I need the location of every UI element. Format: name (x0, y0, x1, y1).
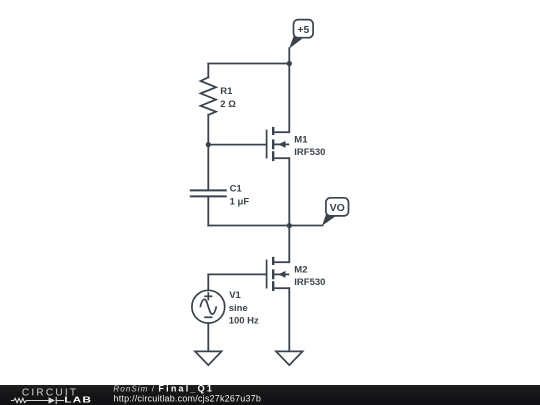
voltage source V1 (sine) (192, 290, 225, 323)
transistor M1 (NMOS IRF530) (267, 127, 290, 161)
svg-text:+5: +5 (297, 24, 309, 36)
footer bar (0, 385, 540, 405)
wire M2 gate lead (208, 273, 266, 275)
wire VO stub (289, 225, 322, 227)
svg-text:C1: C1 (230, 184, 243, 195)
svg-text:http://circuitlab.com/cjs27k26: http://circuitlab.com/cjs27k267u37b (114, 394, 262, 404)
logo diode symbol (49, 397, 56, 404)
capacitor C1 (191, 190, 226, 196)
svg-text:M2: M2 (294, 264, 307, 275)
wire R1 top lead (207, 64, 209, 78)
wire bottom horizontal to VO node (208, 225, 289, 227)
svg-text:LAB: LAB (64, 396, 92, 405)
svg-text:IRF530: IRF530 (294, 277, 325, 288)
svg-text:M1: M1 (294, 134, 308, 145)
junction dot at R1 / C1 / M1 gate node (206, 142, 211, 147)
svg-text:1 μF: 1 μF (230, 197, 250, 208)
wire C1 bottom lead (207, 196, 209, 225)
svg-text:2 Ω: 2 Ω (220, 99, 236, 110)
svg-text:sine: sine (229, 303, 248, 314)
svg-text:IRF530: IRF530 (294, 147, 325, 158)
node +5 flag (289, 20, 313, 49)
svg-text:RonSim / Final_Q1: RonSim / Final_Q1 (113, 383, 214, 393)
wire V1 top lead (207, 274, 209, 290)
wire top horizontal (node +5 rail to R1 branch) (208, 63, 289, 65)
node VO flag (322, 198, 349, 226)
svg-text:V1: V1 (229, 290, 241, 301)
wire from +5 flag down to top node (288, 48, 290, 63)
transistor M2 (NMOS IRF530) (267, 257, 290, 291)
wire M1 gate lead (208, 144, 266, 146)
resistor R1 (201, 77, 216, 115)
svg-text:R1: R1 (220, 86, 233, 97)
wire V1 bottom lead (207, 323, 209, 351)
wire right rail M1 source to M2 drain (288, 158, 290, 262)
junction dot at VO node (287, 223, 292, 228)
wire M2 source to ground (288, 288, 290, 351)
logo resistor squiggle and lead line (11, 397, 64, 404)
svg-text:100 Hz: 100 Hz (229, 315, 259, 326)
wire gate node down to C1 (207, 145, 209, 191)
wire R1 bottom lead to gate node (207, 115, 209, 145)
svg-text:VO: VO (330, 202, 345, 214)
wire right rail from top node to M1 drain (288, 64, 290, 133)
ground (right, below M2 source) (276, 351, 303, 365)
ground (left, below V1) (195, 351, 222, 365)
junction dot at +5 rail / R1 branch (287, 61, 292, 66)
